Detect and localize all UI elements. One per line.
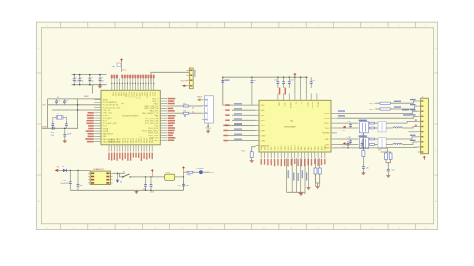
wire RX+ — [337, 138, 359, 140]
svg-text:C18: C18 — [348, 121, 351, 123]
U4 top pins — [278, 93, 317, 100]
resistor R14 — [389, 153, 392, 160]
resistor R10 10K — [250, 152, 253, 158]
svg-text:SD5: SD5 — [264, 147, 266, 151]
capacitor C20 — [362, 164, 364, 167]
U1 right pins — [160, 99, 167, 141]
svg-text:PC14: PC14 — [130, 92, 132, 98]
regulator U3 AMS1117-3.3 — [90, 171, 110, 184]
U4 bottom pins — [261, 152, 325, 158]
wire TX+ — [337, 122, 359, 124]
svg-text:104: 104 — [101, 80, 104, 82]
svg-text:R10: R10 — [241, 150, 244, 152]
svg-text:SA6: SA6 — [307, 147, 310, 151]
inductor L2 — [393, 143, 403, 144]
svg-text:VDDA: VDDA — [103, 130, 109, 133]
grounds below U4 — [287, 191, 305, 193]
inductor L3 — [393, 127, 403, 128]
wire U1 to header J1 — [151, 72, 190, 83]
resistor R13 — [385, 153, 388, 160]
svg-text:Y1: Y1 — [57, 113, 59, 115]
svg-text:VDD: VDD — [278, 102, 280, 107]
svg-text:U3 AMS1117: U3 AMS1117 — [93, 168, 104, 171]
transformer T2 primary — [360, 138, 369, 149]
header J1 BOOT — [189, 68, 193, 89]
svg-text:LED2: LED2 — [324, 118, 330, 120]
resistor R8 — [370, 127, 375, 129]
capacitor C4 104 — [99, 75, 101, 79]
svg-text:POWER: POWER — [197, 168, 204, 170]
svg-text:GND2: GND2 — [325, 145, 327, 150]
polarized cap CT2 mark — [343, 142, 346, 144]
net labels at J2 pins — [410, 99, 416, 100]
wire drop left of rail — [222, 77, 224, 105]
net labels above U1 top pins — [111, 75, 113, 79]
svg-text:VSSA: VSSA — [103, 127, 109, 130]
net labels left of U4 — [234, 103, 242, 104]
power flag VCC3.3 above U1 — [121, 60, 123, 63]
svg-text:STM32F103VET6: STM32F103VET6 — [122, 116, 139, 118]
svg-text:PB13: PB13 — [147, 137, 149, 143]
ground of R12 — [362, 172, 364, 173]
svg-text:C2: C2 — [80, 77, 82, 79]
svg-text:PWRST: PWRST — [311, 102, 313, 110]
RJ45 connector J2 — [421, 98, 429, 154]
svg-text:C19: C19 — [348, 137, 351, 139]
svg-text:LED1: LED1 — [324, 113, 330, 115]
svg-text:C12: C12 — [274, 80, 277, 82]
wire RX- — [337, 144, 359, 146]
net labels below U1 bottom pins — [108, 153, 109, 160]
svg-text:100uF/25V: 100uF/25V — [60, 183, 69, 185]
svg-text:VCC: VCC — [122, 70, 127, 72]
svg-text:104: 104 — [51, 132, 54, 134]
svg-text:TEST: TEST — [306, 102, 308, 108]
svg-text:SD8: SD8 — [274, 147, 276, 151]
svg-text:PB14: PB14 — [149, 137, 151, 143]
capacitor C28 — [145, 177, 147, 181]
power arrow VBUS at J3 — [200, 99, 203, 101]
svg-text:SD15: SD15 — [298, 145, 300, 150]
wire LED branch — [182, 171, 188, 173]
switch S1 — [122, 176, 123, 178]
capacitor C1 104 — [73, 75, 75, 79]
resistor R12 — [362, 148, 364, 151]
wire J3 ground — [207, 123, 209, 130]
resistor R6 LED yellow — [375, 108, 380, 110]
svg-text:EECK: EECK — [317, 102, 319, 108]
wire TXO- long row — [337, 116, 418, 118]
wires U4 left data pins — [223, 104, 256, 106]
resistor R17 1K — [184, 171, 189, 173]
svg-text:SA8: SA8 — [314, 147, 317, 151]
svg-text:S1: S1 — [123, 172, 125, 174]
capacitor C16 — [64, 128, 66, 132]
ground arrow at J1 — [183, 85, 186, 87]
wires below U4 — [286, 158, 288, 192]
net label VCC vertical — [279, 88, 281, 95]
wire 5V rail — [58, 169, 91, 171]
svg-text:SA7: SA7 — [310, 147, 313, 151]
USB connector J3 — [204, 96, 213, 123]
net label on rail left — [225, 80, 230, 81]
wire drop to U1 — [91, 85, 93, 94]
svg-text:SD9: SD9 — [278, 147, 280, 151]
svg-text:DM9000AEP: DM9000AEP — [284, 126, 297, 129]
svg-text:FB2: FB2 — [112, 66, 115, 68]
capacitor C7 — [56, 99, 58, 101]
magnetics M2 — [378, 138, 386, 149]
power flag VCC above U4 — [294, 74, 296, 77]
capacitor C2 104 — [79, 75, 81, 79]
svg-text:C15: C15 — [51, 135, 54, 137]
svg-text:SD11: SD11 — [284, 146, 286, 151]
svg-text:BGRES: BGRES — [322, 133, 330, 135]
ground of C25 — [387, 174, 389, 175]
svg-text:C20: C20 — [366, 168, 369, 170]
wire TX- — [337, 127, 359, 129]
svg-text:R3: R3 — [183, 103, 185, 105]
svg-text:IOW#: IOW# — [261, 135, 267, 137]
svg-text:Y2: Y2 — [205, 127, 207, 129]
svg-text:C3: C3 — [90, 77, 92, 79]
svg-text:C4: C4 — [101, 77, 103, 79]
capacitor C10 — [65, 117, 67, 122]
svg-text:VBUS: VBUS — [197, 96, 203, 98]
capacitor C15 on NRST — [53, 127, 55, 130]
svg-text:10uF: 10uF — [150, 192, 154, 194]
power flag mid rail — [151, 171, 153, 174]
wire TXO+ long row — [337, 111, 418, 113]
svg-text:10uF: 10uF — [185, 185, 189, 187]
wire GND rail of decoupling bank — [72, 84, 107, 86]
wires magnetics to J2 RX — [386, 137, 418, 139]
crystal Y1 8MHz — [57, 116, 61, 120]
svg-text:SA4: SA4 — [300, 147, 303, 151]
capacitor C12 — [277, 77, 279, 82]
svg-text:104: 104 — [90, 80, 93, 82]
capacitor C29 — [150, 177, 152, 181]
capacitor C26 100uF — [69, 170, 71, 176]
power flag below J2 — [423, 157, 425, 160]
wire VCC rail above U4 — [223, 76, 308, 78]
wire USB_DM — [167, 105, 183, 107]
power flag VCC3.3 output — [183, 168, 185, 171]
wire crystal loop left — [47, 99, 49, 128]
svg-text:SD7: SD7 — [271, 147, 273, 151]
wire crystal loop top — [48, 98, 101, 100]
svg-text:D6: D6 — [120, 182, 122, 184]
LED D7 POWER — [199, 170, 203, 174]
svg-text:GND: GND — [298, 192, 303, 194]
svg-text:C14: C14 — [290, 80, 293, 82]
svg-text:SA9: SA9 — [317, 147, 320, 151]
LED D6 — [117, 173, 119, 180]
wire 3.3V rail — [113, 172, 125, 174]
wire LED to gnd label — [203, 171, 210, 173]
wires from labels to U1 top pins — [111, 78, 113, 83]
svg-text:104: 104 — [80, 185, 83, 187]
svg-text:C1: C1 — [75, 77, 77, 79]
wire after switch — [131, 176, 184, 178]
wire crystal loop right — [77, 99, 79, 128]
wires U4 left control pins — [228, 124, 256, 126]
svg-text:VSS_5: VSS_5 — [135, 92, 137, 99]
svg-text:LED_Y: LED_Y — [369, 109, 375, 111]
capacitor C31 — [221, 80, 224, 82]
resistor R3 22R — [183, 105, 189, 107]
ground of supply — [136, 190, 138, 191]
svg-text:TXO+: TXO+ — [324, 123, 330, 125]
svg-text:VBAT: VBAT — [125, 92, 128, 98]
wire drop to termination — [381, 148, 392, 152]
svg-text:104: 104 — [75, 80, 78, 82]
svg-text:L1 FB: L1 FB — [165, 172, 171, 174]
wire R5 to J2 — [390, 101, 418, 103]
svg-text:R4: R4 — [183, 111, 185, 113]
wire NRST row — [42, 127, 78, 129]
net labels below U4 vertical — [261, 159, 262, 165]
svg-text:SD14: SD14 — [295, 145, 297, 150]
capacitor C8 — [64, 99, 66, 101]
ground of C16 — [64, 140, 66, 141]
svg-text:SD6: SD6 — [268, 147, 270, 151]
svg-text:AEN: AEN — [320, 146, 323, 151]
MCU U1 STM32F103VCT6 — [101, 90, 160, 145]
net labels right of U1 — [168, 98, 176, 100]
svg-text:CMD: CMD — [261, 140, 266, 142]
resistor R15 — [314, 168, 317, 174]
U1 left pins — [94, 100, 101, 142]
resistor R5 LED green — [375, 102, 380, 104]
svg-text:LED_G: LED_G — [369, 103, 375, 105]
svg-text:X1: X1 — [295, 102, 297, 104]
wire center tap drop — [362, 133, 364, 148]
wire USB_DP — [167, 112, 183, 114]
ground of R10 — [251, 159, 253, 160]
magnetics M1 — [378, 122, 386, 132]
svg-text:TXO-: TXO- — [325, 128, 330, 130]
capacitor C3 104 — [89, 75, 91, 79]
transformer T1 primary — [360, 122, 369, 133]
svg-text:GND: GND — [210, 172, 215, 174]
svg-text:SD12: SD12 — [288, 145, 290, 150]
svg-text:SD13: SD13 — [291, 145, 293, 150]
ethernet controller U4 DM9000AEP — [259, 100, 331, 152]
ferrite bead FB2 — [117, 63, 121, 66]
diode D5 — [63, 169, 67, 172]
svg-text:C11: C11 — [253, 80, 256, 82]
resistor R9 — [370, 138, 375, 140]
svg-text:SD10: SD10 — [281, 145, 283, 150]
U1 top pins — [112, 84, 154, 91]
capacitor C17 — [310, 77, 312, 82]
wires T1 to magnetics — [375, 122, 379, 124]
polarized cap CT1 mark — [343, 126, 346, 128]
svg-text:PC15: PC15 — [133, 92, 135, 98]
capacitor C27 — [77, 170, 79, 181]
svg-text:VDD25: VDD25 — [289, 102, 291, 108]
capacitor C19 — [350, 139, 352, 141]
capacitor C11 — [251, 77, 253, 81]
resistor R4 22R — [183, 112, 189, 114]
svg-text:104: 104 — [80, 80, 83, 82]
wire crystal loop second — [48, 104, 101, 106]
svg-text:C8: C8 — [65, 100, 67, 102]
wire VCC rail of decoupling bank — [72, 74, 107, 76]
svg-text:PC13-TAMPER: PC13-TAMPER — [103, 101, 117, 104]
wire ground return rail — [70, 189, 183, 191]
ground of J3 — [207, 130, 209, 131]
U4 right pins — [331, 113, 337, 147]
svg-text:PC0_ADC: PC0_ADC — [103, 117, 113, 120]
J2 stub wire — [409, 131, 418, 133]
svg-text:C21: C21 — [342, 130, 345, 132]
capacitor C30 — [183, 180, 185, 184]
U1 bottom pins — [109, 145, 152, 152]
svg-text:PA0-WKUP: PA0-WKUP — [103, 133, 114, 136]
capacitor C18 — [350, 123, 352, 125]
svg-text:PC2_ADC_SET: PC2_ADC_SET — [103, 122, 118, 125]
ground of decoupling bank — [99, 85, 101, 86]
wires T2 to magnetics — [375, 138, 379, 140]
svg-text:PE12: PE12 — [122, 137, 124, 143]
wires rail to U4 top pins — [294, 77, 296, 93]
svg-text:NRST: NRST — [42, 127, 48, 129]
svg-text:J2: J2 — [421, 97, 423, 99]
svg-text:C25: C25 — [391, 170, 394, 172]
wire R17 to LED — [193, 171, 199, 173]
schematic sheet — [36, 22, 437, 229]
blue value labels on bottom wires — [288, 170, 289, 178]
wire crystal row — [52, 109, 101, 111]
junction on USB_DP — [184, 115, 185, 116]
svg-text:PC13: PC13 — [127, 92, 129, 98]
svg-text:SA5: SA5 — [304, 147, 307, 151]
svg-text:NRST: NRST — [146, 92, 148, 98]
capacitor C13 — [283, 77, 285, 82]
svg-text:VSS_1: VSS_1 — [139, 136, 141, 143]
wires magnetics to J2 TX — [386, 122, 418, 124]
svg-text:X2: X2 — [300, 102, 302, 104]
capacitor C24 — [361, 141, 363, 144]
ferrite bead L1 — [165, 174, 175, 180]
svg-text:C30: C30 — [177, 185, 180, 187]
wire AVDD rail — [334, 147, 388, 149]
svg-text:C17: C17 — [312, 80, 315, 82]
svg-text:BOOT0: BOOT0 — [181, 80, 187, 82]
svg-text:VDD_1: VDD_1 — [141, 135, 143, 142]
resistor R16 — [318, 168, 321, 174]
svg-text:C7: C7 — [57, 100, 59, 102]
svg-text:PB10: PB10 — [133, 137, 135, 143]
resistor R11 — [370, 144, 375, 146]
svg-text:GND: GND — [283, 102, 285, 107]
capacitor C23 — [347, 141, 349, 144]
pulldown on U4 WAKEUP — [252, 147, 256, 152]
svg-text:SD4: SD4 — [261, 147, 263, 151]
wire R6 to J2 — [390, 106, 418, 109]
capacitor C25 — [387, 166, 389, 169]
capacitor C9 — [52, 117, 54, 122]
svg-text:D5: D5 — [62, 166, 64, 168]
svg-text:X1: X1 — [57, 97, 59, 99]
capacitor C14 — [288, 77, 290, 82]
U4 left pins — [256, 105, 260, 146]
svg-text:VDD_5: VDD_5 — [138, 92, 140, 99]
net labels left of U1 — [88, 112, 94, 114]
resistor R7 — [370, 122, 375, 124]
